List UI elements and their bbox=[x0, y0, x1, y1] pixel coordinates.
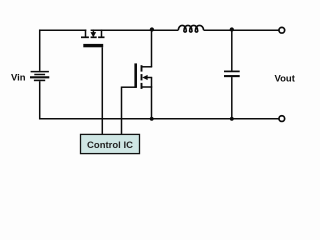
wire top rail right segment bbox=[91, 29, 179, 31]
svg-text:Vout: Vout bbox=[275, 73, 296, 84]
transistor Q2 low-side MOSFET bbox=[142, 29, 153, 118]
transistor Q1 high-side MOSFET bbox=[81, 29, 105, 37]
channel segment top bbox=[141, 65, 143, 71]
node output junction (top) bbox=[230, 27, 234, 31]
wire Vin vertical lower bbox=[39, 81, 41, 119]
channel bar left bbox=[81, 36, 89, 38]
channel bar right bbox=[98, 36, 104, 38]
wire top rail left segment bbox=[40, 29, 87, 31]
battery BT1 (Vin source) bbox=[30, 72, 49, 81]
wire bottom rail bbox=[40, 118, 279, 120]
source stub bbox=[142, 86, 152, 88]
source/body vertical to bottom rail bbox=[151, 78, 153, 119]
node cap junction (bottom) bbox=[230, 117, 234, 121]
bottom plate bbox=[224, 75, 240, 77]
transistor Q1 gate bar bbox=[83, 44, 103, 47]
wire cap top lead bbox=[231, 29, 233, 70]
source leg bbox=[85, 29, 87, 36]
svg-text:Control IC: Control IC bbox=[87, 140, 133, 151]
body arrow stem bbox=[147, 77, 152, 79]
channel segment bottom bbox=[141, 83, 143, 89]
drain leg bbox=[101, 29, 103, 36]
terminal Vout- (open circle, bottom right) bbox=[279, 116, 285, 122]
node switch node junction (top) bbox=[150, 27, 154, 31]
drain stub bbox=[142, 66, 152, 68]
top plate bbox=[224, 70, 240, 72]
wire Q2 gate lead down to Control IC bbox=[121, 87, 123, 135]
channel bar middle bbox=[91, 36, 97, 38]
wire Q1 gate lead down to Control IC bbox=[101, 47, 103, 134]
transistor Q2 gate bar bbox=[134, 63, 137, 87]
wire cap bottom lead bbox=[231, 77, 233, 119]
body arrow stem bbox=[92, 29, 94, 33]
wire Q2 gate lead horizontal bbox=[122, 86, 137, 88]
inductor L1 bbox=[178, 25, 203, 32]
capacitor C1 bbox=[224, 29, 240, 118]
drain vertical from switch node bbox=[151, 29, 153, 66]
wire Vin vertical upper bbox=[39, 29, 41, 70]
svg-text:Vin: Vin bbox=[11, 73, 26, 84]
terminal Vout+ (open circle, top right) bbox=[279, 27, 285, 33]
wire top rail after inductor bbox=[204, 29, 279, 31]
transistor Q1 body arrowhead (points down) bbox=[90, 32, 96, 37]
control IC U1 box bbox=[81, 134, 140, 153]
transistor Q2 body arrowhead (points left) bbox=[142, 75, 147, 80]
node Q2 source junction (bottom) bbox=[150, 117, 154, 121]
channel segment middle bbox=[141, 74, 143, 80]
